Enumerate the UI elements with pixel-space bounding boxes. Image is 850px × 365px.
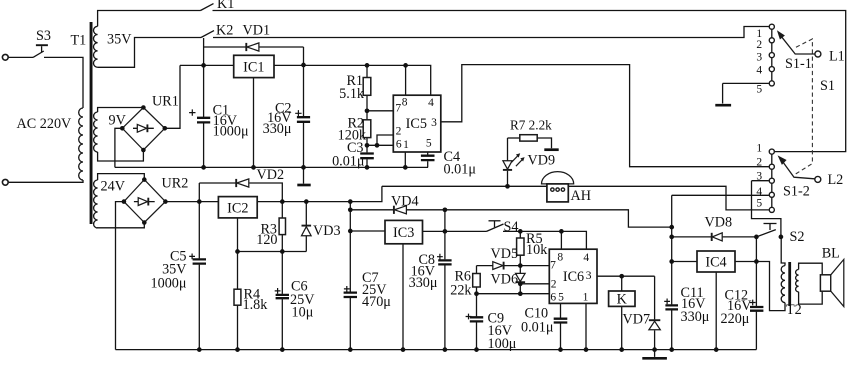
- svg-text:3: 3: [431, 117, 437, 129]
- svg-text:S1: S1: [820, 78, 835, 94]
- svg-text:1000μ: 1000μ: [213, 124, 249, 140]
- svg-text:1: 1: [583, 291, 589, 303]
- svg-text:10μ: 10μ: [292, 305, 314, 321]
- svg-text:AH: AH: [571, 188, 592, 204]
- svg-text:R7 2.2k: R7 2.2k: [510, 118, 552, 133]
- svg-text:S3: S3: [36, 28, 51, 44]
- svg-text:IC5: IC5: [406, 116, 427, 132]
- svg-text:0.01μ: 0.01μ: [521, 320, 554, 336]
- svg-text:22k: 22k: [450, 282, 472, 298]
- svg-text:5.1k: 5.1k: [339, 86, 365, 102]
- svg-text:0.01μ: 0.01μ: [332, 154, 365, 170]
- svg-text:0.01μ: 0.01μ: [444, 162, 477, 178]
- svg-text:S1-1: S1-1: [785, 56, 812, 72]
- svg-text:1.8k: 1.8k: [243, 297, 269, 313]
- svg-text:220μ: 220μ: [721, 311, 750, 327]
- svg-text:L1: L1: [829, 48, 845, 64]
- svg-text:VD3: VD3: [313, 223, 341, 239]
- svg-text:1: 1: [756, 142, 762, 154]
- svg-text:IC1: IC1: [243, 59, 264, 75]
- svg-text:6: 6: [550, 291, 556, 303]
- svg-text:T1: T1: [71, 33, 87, 49]
- svg-text:BL: BL: [822, 246, 840, 262]
- svg-text:VD5: VD5: [491, 246, 519, 262]
- svg-text:8: 8: [402, 96, 408, 108]
- svg-text:VD8: VD8: [705, 215, 733, 231]
- svg-text:5: 5: [756, 84, 762, 96]
- svg-text:3: 3: [586, 270, 592, 282]
- svg-text:K: K: [617, 291, 628, 307]
- svg-text:330μ: 330μ: [681, 309, 710, 325]
- svg-text:3: 3: [756, 170, 762, 182]
- svg-text:6: 6: [396, 138, 402, 150]
- svg-text:5: 5: [558, 291, 564, 303]
- svg-text:120: 120: [256, 232, 277, 248]
- svg-text:470μ: 470μ: [362, 294, 391, 310]
- svg-text:7: 7: [550, 260, 556, 272]
- svg-text:IC2: IC2: [227, 201, 248, 217]
- svg-text:IC3: IC3: [393, 225, 414, 241]
- svg-text:IC6: IC6: [563, 269, 584, 285]
- svg-text:8: 8: [557, 252, 563, 264]
- svg-text:4: 4: [756, 186, 762, 198]
- svg-text:IC4: IC4: [705, 255, 726, 271]
- svg-text:7: 7: [395, 103, 401, 115]
- svg-text:2: 2: [756, 157, 762, 169]
- svg-text:9V: 9V: [109, 113, 127, 129]
- svg-text:L2: L2: [828, 172, 844, 188]
- svg-text:VD9: VD9: [528, 153, 556, 169]
- svg-text:330μ: 330μ: [409, 275, 438, 291]
- svg-text:S1-2: S1-2: [783, 184, 810, 200]
- svg-text:VD6: VD6: [491, 272, 519, 288]
- svg-text:S2: S2: [790, 229, 805, 245]
- svg-text:2: 2: [756, 39, 762, 51]
- svg-text:AC 220V: AC 220V: [17, 116, 73, 132]
- svg-text:5: 5: [426, 138, 432, 150]
- svg-text:K2: K2: [216, 23, 233, 39]
- svg-text:UR1: UR1: [152, 94, 179, 110]
- svg-text:3: 3: [756, 52, 762, 64]
- svg-text:UR2: UR2: [162, 176, 189, 192]
- svg-text:2: 2: [551, 279, 557, 291]
- svg-text:VD7: VD7: [623, 312, 651, 328]
- svg-text:330μ: 330μ: [263, 121, 292, 137]
- svg-text:VD2: VD2: [257, 167, 285, 183]
- svg-text:4: 4: [756, 65, 762, 77]
- svg-text:5: 5: [756, 197, 762, 209]
- svg-text:4: 4: [428, 97, 434, 109]
- svg-text:1000μ: 1000μ: [151, 276, 187, 292]
- svg-text:4: 4: [583, 252, 589, 264]
- svg-text:1: 1: [403, 139, 409, 151]
- svg-text:24V: 24V: [101, 179, 126, 195]
- svg-text:VD4: VD4: [391, 193, 419, 209]
- svg-text:K1: K1: [217, 0, 234, 12]
- svg-text:S4: S4: [504, 219, 519, 235]
- svg-text:100μ: 100μ: [488, 336, 517, 352]
- svg-text:2: 2: [396, 126, 402, 138]
- svg-text:10k: 10k: [526, 242, 548, 258]
- svg-text:35V: 35V: [107, 32, 132, 48]
- svg-text:VD1: VD1: [243, 23, 271, 39]
- svg-text:T2: T2: [786, 302, 802, 318]
